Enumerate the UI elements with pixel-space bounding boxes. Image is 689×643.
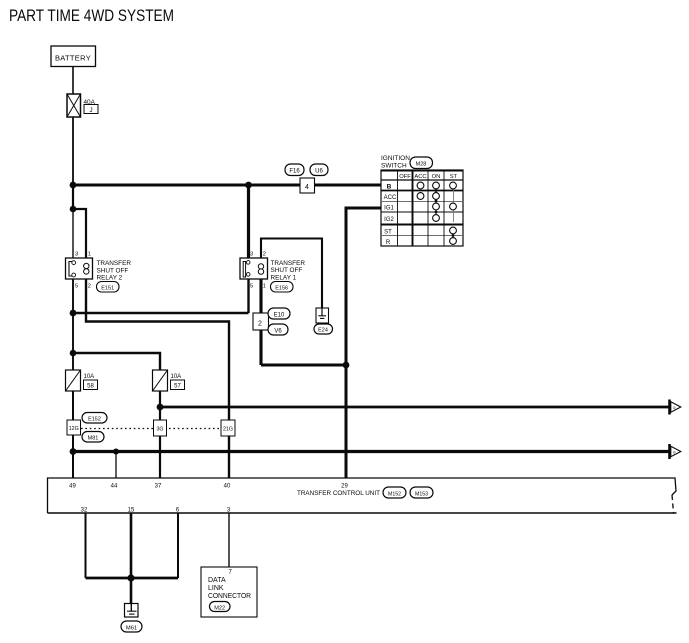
svg-text:21G: 21G xyxy=(223,427,233,433)
svg-text:5: 5 xyxy=(250,284,253,290)
svg-text:B: B xyxy=(387,184,392,191)
svg-text:57: 57 xyxy=(174,384,181,390)
svg-text:44: 44 xyxy=(111,484,118,490)
svg-text:DATA: DATA xyxy=(208,577,226,584)
svg-text:12G: 12G xyxy=(69,426,79,432)
svg-text:2: 2 xyxy=(263,252,266,258)
svg-text:OFF: OFF xyxy=(399,174,411,180)
svg-text:R: R xyxy=(386,240,391,246)
svg-text:BATTERY: BATTERY xyxy=(55,54,91,63)
svg-text:TRANSFER: TRANSFER xyxy=(97,260,132,267)
svg-text:M153: M153 xyxy=(415,492,428,498)
svg-text:10A: 10A xyxy=(84,374,95,380)
svg-text:E152: E152 xyxy=(88,416,101,422)
svg-text:4: 4 xyxy=(305,184,309,191)
svg-text:3: 3 xyxy=(250,252,253,258)
svg-text:ST: ST xyxy=(384,230,392,236)
svg-text:SWITCH: SWITCH xyxy=(381,163,407,170)
svg-text:M22: M22 xyxy=(214,605,225,611)
svg-text:E151: E151 xyxy=(101,286,114,292)
svg-text:5: 5 xyxy=(75,284,78,290)
svg-text:1: 1 xyxy=(88,252,91,258)
svg-text:IG2: IG2 xyxy=(384,217,394,223)
svg-text:E24: E24 xyxy=(318,328,328,334)
svg-text:CONNECTOR: CONNECTOR xyxy=(208,593,251,600)
svg-text:IG1: IG1 xyxy=(384,206,394,212)
svg-text:M81: M81 xyxy=(88,436,99,442)
svg-text:LINK: LINK xyxy=(208,585,224,592)
svg-text:40: 40 xyxy=(224,484,231,490)
svg-text:3G: 3G xyxy=(156,427,163,433)
svg-text:PART TIME 4WD SYSTEM: PART TIME 4WD SYSTEM xyxy=(9,6,174,25)
svg-text:58: 58 xyxy=(87,384,94,390)
svg-text:E10: E10 xyxy=(274,313,285,319)
svg-text:49: 49 xyxy=(69,484,76,490)
svg-text:RELAY 2: RELAY 2 xyxy=(97,275,123,282)
svg-text:E156: E156 xyxy=(275,286,288,292)
svg-text:SHUT OFF: SHUT OFF xyxy=(271,267,303,274)
svg-text:1: 1 xyxy=(263,284,266,290)
svg-text:ON: ON xyxy=(432,174,441,180)
svg-text:15: 15 xyxy=(128,508,135,514)
svg-text:37: 37 xyxy=(155,484,162,490)
svg-text:TRANSFER CONTROL UNIT: TRANSFER CONTROL UNIT xyxy=(297,490,380,497)
svg-text:3: 3 xyxy=(75,252,78,258)
svg-text:10A: 10A xyxy=(171,374,182,380)
svg-text:V6: V6 xyxy=(274,329,282,335)
svg-text:M152: M152 xyxy=(388,492,401,498)
svg-text:ACC: ACC xyxy=(384,195,397,201)
svg-text:2: 2 xyxy=(258,321,262,328)
svg-text:F16: F16 xyxy=(289,169,300,175)
svg-text:TRANSFER: TRANSFER xyxy=(271,260,306,267)
svg-text:IGNITION: IGNITION xyxy=(381,155,410,162)
svg-text:2: 2 xyxy=(88,284,91,290)
svg-text:ST: ST xyxy=(450,174,458,180)
svg-text:M61: M61 xyxy=(126,625,137,631)
svg-text:RELAY 1: RELAY 1 xyxy=(271,274,297,281)
svg-text:U6: U6 xyxy=(315,169,323,175)
svg-text:29: 29 xyxy=(341,484,348,490)
svg-text:SHUT OFF: SHUT OFF xyxy=(97,267,129,274)
svg-text:ACC: ACC xyxy=(414,174,426,180)
svg-text:32: 32 xyxy=(81,508,88,514)
svg-text:J: J xyxy=(89,107,92,114)
svg-text:M28: M28 xyxy=(416,162,427,168)
